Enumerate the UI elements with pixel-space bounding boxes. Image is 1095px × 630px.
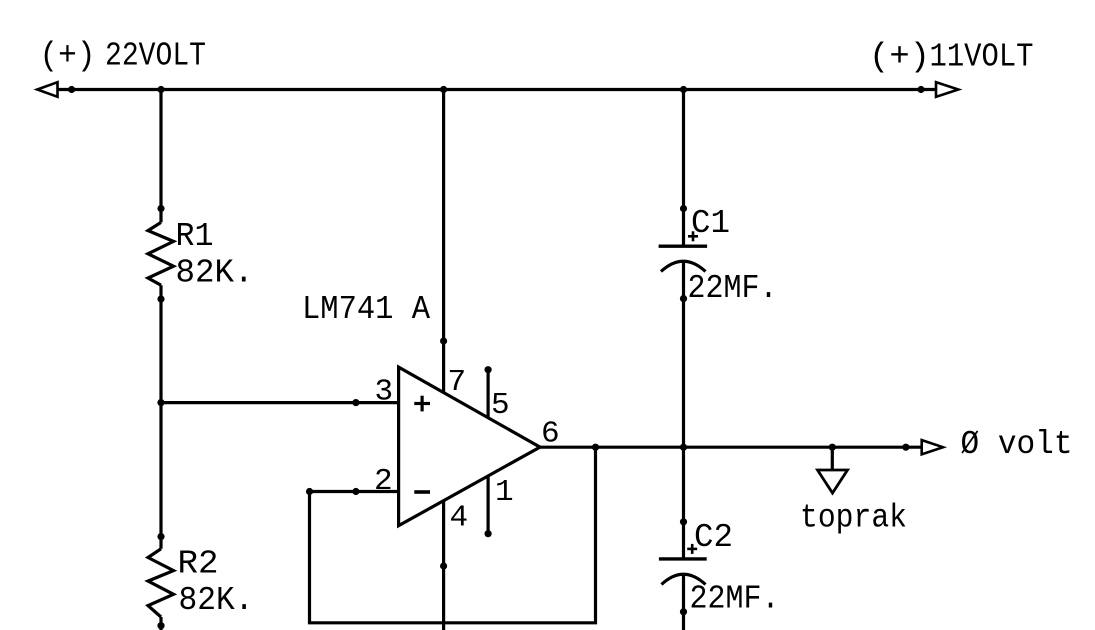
svg-text:82K.: 82K. (179, 582, 254, 619)
svg-text:2: 2 (374, 464, 393, 499)
svg-text:5: 5 (491, 388, 510, 423)
svg-text:11VOLT: 11VOLT (930, 39, 1034, 76)
svg-text:C2: C2 (694, 519, 733, 556)
junction R2 top (157, 533, 164, 540)
junction pin5 stub top (485, 366, 492, 373)
left terminal arrow (+22V) (37, 82, 57, 97)
junction pin1 stub bottom (485, 530, 492, 537)
wire R1/R2 branch upper (159, 90, 162, 223)
svg-text:22VOLT: 22VOLT (105, 38, 206, 75)
svg-text:4: 4 (450, 501, 469, 536)
wire pin7/pin4 vertical (442, 90, 445, 630)
wire C1 upper (682, 90, 685, 247)
junction R1 bottom (157, 295, 164, 302)
svg-text:Ø volt: Ø volt (961, 426, 1073, 463)
junction node pin3 at R divider (157, 399, 164, 406)
svg-text:3: 3 (375, 374, 394, 409)
right terminal arrow (+11V) (936, 82, 958, 97)
svg-text:22MF.: 22MF. (688, 270, 778, 307)
svg-text:22MF.: 22MF. (690, 581, 780, 618)
junction rail pin7 branch (440, 86, 447, 93)
wire output pin6 (540, 446, 922, 449)
svg-text:toprak: toprak (800, 500, 907, 537)
svg-text:82K.: 82K. (176, 254, 254, 291)
junction pin7 line upper (440, 337, 447, 344)
wire pin3 input (161, 401, 399, 404)
junction output near arrow (902, 444, 909, 451)
junction output feedback (592, 444, 599, 451)
junction R2 bottom (157, 622, 164, 629)
wire C1 lower (682, 261, 685, 447)
resistor R2 (148, 549, 174, 617)
svg-text:1: 1 (495, 475, 514, 510)
C2 polarity plus (687, 544, 697, 554)
junction pin2 wire (352, 488, 359, 495)
svg-text:R2: R2 (178, 545, 219, 582)
pin 1 stub (487, 474, 490, 534)
wire R1 bottom to R2 top (node pin3) (159, 285, 162, 549)
ground symbol toprak (818, 470, 848, 493)
output terminal arrow (0 volt) (922, 440, 943, 454)
resistor R1 (148, 222, 174, 285)
wire top rail (+22V) (56, 88, 936, 91)
wire C2 upper (682, 447, 685, 559)
capacitor C2 (659, 557, 707, 560)
C1 polarity plus (688, 231, 698, 241)
junction rail left (68, 86, 75, 93)
junction pin2 corner (306, 488, 313, 495)
wire C2 lower to edge (682, 575, 685, 630)
svg-text:(+): (+) (40, 38, 96, 75)
junction pin4 line lower (440, 562, 447, 569)
op-amp plus input marker (414, 396, 430, 412)
junction C1 bottom (680, 295, 687, 302)
svg-text:(+): (+) (869, 39, 930, 76)
capacitor C1 (659, 244, 708, 247)
svg-text:C1: C1 (691, 205, 730, 242)
junction output ground tap (829, 444, 836, 451)
ground stub (toprak) (831, 447, 834, 470)
junction C2 top (680, 518, 687, 525)
junction output C branch (680, 444, 687, 451)
junction C2 bottom (680, 608, 687, 615)
svg-text:LM741 A: LM741 A (302, 291, 430, 328)
junction R1 top (157, 205, 164, 212)
wire pin2 input (310, 490, 400, 493)
svg-text:R1: R1 (176, 218, 214, 255)
op-amp minus input marker (414, 490, 430, 494)
junction rail right (917, 86, 924, 93)
junction rail R1 branch (157, 86, 164, 93)
wire feedback loop (310, 447, 596, 623)
op-amp U1 LM741 triangle (399, 367, 540, 526)
junction pin3 wire (352, 399, 359, 406)
junction C1 top (680, 205, 687, 212)
wire R2 bottom to edge (159, 617, 162, 630)
svg-text:7: 7 (448, 365, 467, 400)
pin 5 stub (487, 370, 490, 420)
junction rail C1 branch (680, 86, 687, 93)
